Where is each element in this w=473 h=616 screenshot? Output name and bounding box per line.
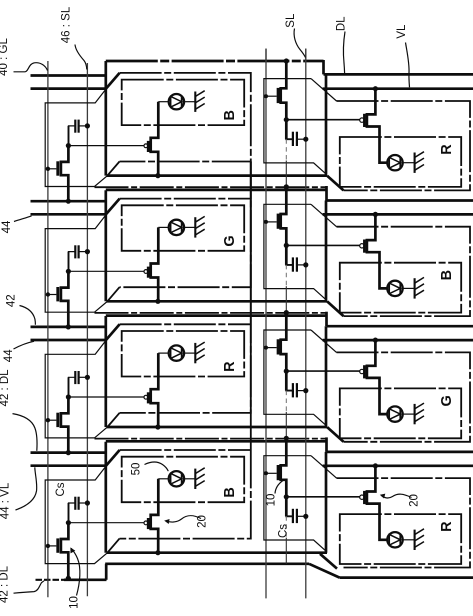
drive transistor 20 right cell 1	[367, 89, 387, 163]
organic EL element right cell 1	[387, 155, 402, 170]
select TFT gate bar left cell 4	[56, 538, 59, 552]
leader 44 second	[14, 341, 35, 349]
leader SL top	[294, 29, 305, 58]
inner box right cell 4	[340, 514, 461, 564]
outer box left cell 4	[120, 162, 251, 539]
drive TFT gate bar left cell 4	[147, 518, 150, 529]
svg-text:R: R	[439, 521, 455, 532]
drive transistor 20 left cell 2	[151, 227, 159, 301]
wire left cell 1 bottom boundary	[107, 174, 328, 177]
select transistor 10 right cell 2	[281, 187, 287, 265]
select TFT gate bar left cell 1	[56, 161, 59, 175]
wire outer box bottom-left diagonal left cell 3	[107, 413, 119, 427]
wire left cell 3 bottom boundary	[107, 426, 328, 429]
inner box left cell 1	[122, 80, 245, 126]
wire outline diagonal to outer box right cell 2	[311, 204, 337, 226]
svg-text:50: 50	[131, 463, 143, 476]
power line 44:VL left margin band 3	[31, 464, 107, 467]
svg-text:10: 10	[69, 596, 81, 609]
svg-text:B: B	[222, 110, 238, 120]
select transistor 10 right cell 4	[281, 438, 287, 516]
junction storage node dot left cell 1	[66, 143, 71, 148]
select TFT gate bar right cell 1	[277, 88, 280, 103]
junction drive drain on VL right cell 4	[373, 463, 378, 468]
wire left cell 2 bottom boundary	[107, 300, 328, 303]
wire select gate to GL left cell 3	[48, 419, 57, 421]
wire select gate to GL right cell 1	[266, 95, 277, 97]
wire bottom boundary diagonal to right outer box row 2	[327, 301, 344, 316]
leader 50	[145, 462, 169, 471]
wire DL band 3 jog down	[325, 437, 328, 452]
wire anode left cell 4	[158, 478, 169, 480]
organic EL element 50 left cell 4	[169, 471, 184, 486]
pixel outline right cell 4	[264, 456, 326, 551]
wire DL trunk continuation right cell 1	[285, 161, 287, 187]
scan line SL top stub right column	[305, 49, 307, 62]
chain boundary line between rows 2/3	[95, 312, 327, 314]
leader 42	[20, 306, 36, 325]
junction storage node dot right cell 3	[284, 369, 289, 374]
wire bottom boundary diagonal to right outer box row 1	[327, 176, 344, 191]
leader VL top	[406, 43, 410, 88]
junction DL trunk dot right cell 1	[284, 58, 289, 63]
power line 44:VL left margin row0	[31, 87, 107, 90]
capacitor Cs left cell 3 plates	[74, 371, 76, 384]
svg-text:R: R	[439, 144, 455, 155]
wire anode left cell 3	[158, 352, 169, 354]
wire cap right plate to SL left cell 4	[79, 502, 88, 504]
wire outer box bottom-left diagonal left cell 4	[107, 539, 119, 553]
ground symbol right cell 1	[414, 153, 416, 173]
gate line GL right column vertical	[265, 49, 267, 599]
leader 10 left	[71, 548, 80, 595]
pixel outline 10 left cell 3	[45, 340, 107, 438]
capacitor Cs left cell 2 plates	[74, 245, 76, 258]
junction gate-GL dot right cell 4	[264, 471, 268, 475]
junction storage node dot right cell 4	[284, 494, 289, 499]
svg-text:G: G	[222, 235, 238, 246]
wire cap left plate to node left cell 1	[69, 126, 76, 146]
power line 44:VL right margin row 2	[323, 213, 473, 216]
wire left cell 3 boundary vertical edge	[104, 316, 107, 427]
drive TFT gate circle left cell 2	[144, 270, 148, 274]
wire cathode left cell 4	[184, 478, 195, 480]
leader 44:VL	[16, 467, 37, 510]
wire cap right plate to SL right cell 3	[297, 390, 306, 392]
scan line 46:SL left column vertical	[86, 63, 88, 596]
data line 42:DL left margin row0	[31, 74, 107, 77]
organic EL element 50 left cell 2	[169, 220, 184, 235]
svg-text:40 : GL: 40 : GL	[0, 38, 10, 76]
junction DL trunk dot right cell 4	[284, 436, 289, 441]
junction drive drain on VL right cell 3	[373, 338, 378, 343]
wire gate feed right cell 3	[286, 370, 359, 372]
wire right cell 1 boundary vertical edge	[325, 74, 328, 174]
wire outer box bottom-left diagonal left cell 2	[107, 287, 119, 301]
wire data line DL bottom right margin	[340, 576, 473, 579]
drive TFT gate circle left cell 3	[144, 395, 148, 399]
outer box left cell 3	[120, 162, 251, 413]
wire gate feed left cell 2	[68, 270, 143, 272]
inner box left cell 4	[122, 457, 245, 503]
wire outline diagonal to outer box right cell 3	[311, 330, 337, 352]
organic EL element right cell 3	[387, 406, 402, 421]
junction cap-SL dot left cell 1	[85, 123, 90, 128]
svg-text:VL: VL	[396, 24, 408, 39]
power line VL diagonal into outer box row 2 left	[106, 199, 120, 215]
wire cathode left cell 1	[184, 101, 195, 103]
junction gate line dot left cell 4	[46, 544, 50, 548]
wire right cell 4 boundary vertical edge	[325, 452, 328, 553]
wire gate feed right cell 2	[286, 244, 359, 246]
drive transistor 20 right cell 3	[367, 340, 387, 414]
wire right cell 2 boundary vertical edge	[325, 201, 328, 301]
wire select gate to GL left cell 4	[48, 545, 57, 547]
wire cap right plate to SL right cell 1	[297, 138, 306, 140]
junction select source on DL left cell 3	[66, 450, 71, 455]
outer box right cell 3	[337, 352, 471, 441]
capacitor Cs right cell 1 plates	[292, 132, 294, 146]
junction drive source on bottom line left cell 4	[155, 550, 160, 555]
wire outline diagonal to outer box right cell 1	[311, 79, 337, 101]
junction DL trunk dot right cell 2	[284, 184, 289, 189]
ground symbol left cell 1	[194, 92, 196, 112]
drive TFT gate circle left cell 4	[144, 521, 148, 525]
svg-text:42: 42	[5, 294, 17, 307]
ground symbol right cell 4	[414, 530, 416, 550]
select transistor left cell 2	[61, 271, 69, 327]
leader 20 left	[167, 516, 202, 522]
wire cap right plate to SL left cell 2	[79, 251, 88, 253]
wire cathode right cell 2	[403, 287, 415, 289]
junction drive drain on VL right cell 1	[373, 86, 378, 91]
drive TFT gate circle right cell 4	[360, 495, 364, 499]
junction storage node dot left cell 3	[66, 394, 71, 399]
wire DL trunk dashed segment right cell 4	[285, 516, 287, 537]
arrow 20 left	[164, 519, 169, 524]
svg-text:B: B	[222, 487, 238, 497]
junction select source on DL left cell 4	[66, 576, 71, 581]
capacitor Cs right cell 2 plates	[292, 257, 294, 271]
pixel outline right cell 1	[264, 79, 326, 174]
svg-text:Cs: Cs	[278, 524, 290, 538]
ground symbol left cell 3	[194, 343, 196, 363]
drive transistor 20 right cell 4	[367, 466, 387, 540]
wire left cell 1 boundary vertical edge	[104, 61, 107, 176]
select transistor left cell 4	[61, 523, 69, 579]
wire right cell 3 boundary vertical edge	[325, 326, 328, 426]
junction gate line dot left cell 3	[46, 418, 50, 422]
wire gate feed left cell 4	[68, 522, 143, 524]
data line 42:DL left margin bottom	[36, 579, 67, 581]
select TFT gate bar right cell 2	[277, 214, 280, 229]
data line 42:DL left margin band 1	[31, 200, 107, 203]
gate line GL top stub right column	[265, 49, 267, 62]
power line VL diagonal into outer box row 3 left	[106, 324, 120, 340]
drive TFT gate bar right cell 4	[363, 491, 366, 504]
leader 42:DL bottom	[14, 581, 45, 593]
gate line 40:GL left column vertical	[47, 61, 49, 597]
junction cap-SL dot left cell 3	[85, 375, 90, 380]
organic EL element 50 left cell 3	[169, 345, 184, 360]
wire gate feed left cell 3	[68, 396, 143, 398]
wire data line DL row0 right margin	[324, 73, 473, 76]
power line 44:VL left margin band 2	[31, 339, 107, 342]
capacitor Cs left cell 4 plates	[74, 497, 76, 510]
junction cap-SL dot right cell 1	[303, 137, 308, 142]
wire cap right plate to SL right cell 2	[297, 264, 306, 266]
wire data line DL right margin band 1	[327, 199, 473, 202]
select TFT gate bar right cell 4	[277, 465, 280, 480]
wire gate feed left cell 1	[68, 145, 143, 147]
outer box right cell 1	[337, 101, 471, 190]
wire outer box bottom-left diagonal left cell 1	[107, 162, 119, 176]
junction cap-SL dot right cell 3	[303, 388, 308, 393]
svg-text:Cs: Cs	[55, 482, 67, 496]
wire select gate to GL right cell 2	[266, 221, 277, 223]
pixel outline 10 left cell 2	[45, 215, 107, 313]
wire anode left cell 2	[158, 226, 169, 228]
wire DL trunk dashed segment right cell 3	[285, 391, 287, 412]
wire select gate to GL right cell 3	[266, 347, 277, 349]
arrow 20 right	[380, 494, 386, 499]
pixel outline right cell 3	[264, 330, 326, 425]
wire DL trunk continuation right cell 4	[285, 538, 287, 564]
ground symbol right cell 3	[414, 404, 416, 424]
power line 44:VL right margin row 1	[323, 87, 473, 90]
junction cap-SL dot left cell 4	[85, 500, 90, 505]
junction storage node dot left cell 4	[66, 520, 71, 525]
inner box right cell 2	[340, 263, 461, 313]
wire cap right plate to SL left cell 3	[79, 376, 88, 378]
leader DL top	[343, 32, 345, 74]
wire cap left plate right cell 2	[286, 245, 293, 265]
pixel outline 10 left cell 4	[45, 466, 107, 564]
drive TFT gate bar left cell 1	[147, 141, 150, 152]
inner box left cell 3	[122, 331, 245, 377]
svg-text:44 : VL: 44 : VL	[0, 482, 12, 519]
leader 40:GL	[14, 63, 48, 72]
svg-text:DL: DL	[336, 16, 348, 31]
wire DL trunk dashed segment right cell 1	[285, 139, 287, 160]
wire cap left plate right cell 3	[286, 371, 293, 391]
select TFT gate bar left cell 3	[56, 413, 59, 427]
junction DL trunk dot right cell 3	[284, 310, 289, 315]
wire data line DL right margin band 2	[327, 325, 473, 328]
junction drive source on bottom line left cell 1	[155, 173, 160, 178]
svg-text:SL: SL	[285, 13, 297, 28]
outer box right cell 2	[337, 227, 471, 316]
select transistor 10 right cell 3	[281, 312, 287, 390]
svg-text:46 : SL: 46 : SL	[61, 6, 73, 43]
scan line SL right column vertical	[305, 49, 307, 599]
select transistor left cell 3	[61, 397, 69, 453]
junction gate line dot left cell 1	[46, 167, 50, 171]
outer box right cell 4	[337, 478, 471, 567]
wire left cell 4 bottom boundary	[107, 551, 328, 554]
wire DL bottom jog up	[105, 564, 108, 580]
drive TFT gate circle right cell 2	[360, 244, 364, 248]
capacitor Cs right cell 4 plates	[292, 509, 294, 523]
outer box left cell 1	[120, 73, 251, 162]
drive TFT gate bar right cell 1	[363, 114, 366, 127]
junction select source on DL left cell 1	[66, 199, 71, 204]
wire select gate to GL left cell 2	[48, 294, 57, 296]
svg-text:42 : DL: 42 : DL	[0, 565, 11, 603]
junction drive source on bottom line left cell 3	[155, 424, 160, 429]
wire data line DL mid run band 2	[106, 314, 327, 317]
outer box left cell 2	[120, 162, 251, 288]
wire cap left plate right cell 1	[286, 120, 293, 140]
power line 44:VL right margin row 4	[323, 464, 473, 467]
data line 42:DL left margin band 2	[31, 326, 107, 329]
leader 10 right	[275, 480, 283, 493]
wire bottom boundary diagonal to right outer box row 3	[327, 427, 344, 442]
select transistor 10 right cell 1	[281, 61, 287, 139]
leader 46:SL	[75, 45, 87, 70]
wire cap left plate to node left cell 3	[69, 377, 76, 397]
capacitor Cs left cell 1 plates	[74, 120, 76, 133]
inner box right cell 3	[340, 388, 461, 438]
wire data line DL right margin band 3	[327, 451, 473, 454]
wire select gate to GL left cell 1	[48, 168, 57, 170]
junction cap-SL dot right cell 2	[303, 262, 308, 267]
wire outline diagonal to outer box right cell 4	[311, 456, 337, 478]
drive TFT gate circle left cell 1	[144, 144, 148, 148]
wire DL band 1 jog down	[325, 186, 328, 201]
svg-text:R: R	[222, 361, 238, 372]
wire DL bottom diagonal	[309, 564, 340, 578]
drive transistor 20 right cell 2	[367, 214, 387, 288]
svg-text:44: 44	[3, 349, 15, 362]
wire cap left plate to node left cell 2	[69, 252, 76, 272]
power line VL diagonal into outer box row 4 left	[106, 450, 120, 466]
pixel outline 10 left cell 1	[45, 89, 107, 187]
svg-text:10: 10	[266, 494, 278, 507]
power line VL diagonal into outer box row 1 left	[106, 73, 120, 89]
wire left cell 2 boundary vertical edge	[104, 190, 107, 301]
junction cap-SL dot right cell 4	[303, 514, 308, 519]
junction cap-SL dot left cell 2	[85, 249, 90, 254]
drive TFT gate circle right cell 3	[360, 369, 364, 373]
select TFT gate bar left cell 2	[56, 287, 59, 301]
inner box left cell 2	[122, 205, 245, 251]
wire cathode right cell 3	[403, 413, 415, 415]
junction storage node dot right cell 1	[284, 117, 289, 122]
chain boundary line between rows 3/4	[95, 438, 327, 440]
drive transistor 20 left cell 4	[151, 479, 159, 553]
chain boundary line between rows 1/2	[95, 186, 327, 188]
leader 44 first	[14, 216, 32, 222]
organic EL element right cell 2	[387, 281, 402, 296]
wire cathode left cell 3	[184, 352, 195, 354]
wire cathode right cell 4	[403, 539, 415, 541]
drive transistor 20 left cell 3	[151, 353, 159, 427]
wire DL row0 jog down at right	[322, 60, 325, 74]
wire gate feed right cell 4	[286, 496, 359, 498]
wire gate feed right cell 1	[286, 119, 359, 121]
svg-text:44: 44	[1, 220, 13, 233]
wire cap right plate to SL right cell 4	[297, 515, 306, 517]
wire left cell 4 boundary vertical edge	[104, 442, 107, 553]
wire DL band 2 jog down	[325, 312, 328, 327]
wire DL trunk continuation right cell 3	[285, 412, 287, 438]
drive TFT gate circle right cell 1	[360, 118, 364, 122]
wire DL trunk dashed segment right cell 2	[285, 265, 287, 286]
wire anode left cell 1	[158, 101, 169, 103]
junction drive source on bottom line left cell 2	[155, 299, 160, 304]
ground symbol left cell 4	[194, 469, 196, 489]
capacitor Cs right cell 3 plates	[292, 383, 294, 397]
drive transistor 20 left cell 1	[151, 102, 159, 176]
ground symbol left cell 2	[194, 217, 196, 237]
select transistor left cell 1	[61, 146, 69, 202]
drive TFT gate bar right cell 2	[363, 240, 366, 253]
drive TFT gate bar right cell 3	[363, 365, 366, 378]
wire cathode right cell 1	[403, 162, 415, 164]
data line 42:DL left margin band 3	[31, 451, 107, 454]
power line 44:VL left margin band 1	[31, 213, 107, 216]
junction storage node dot left cell 2	[66, 269, 71, 274]
junction gate-GL dot right cell 3	[264, 346, 268, 350]
junction gate line dot left cell 2	[46, 292, 50, 296]
drive TFT gate bar left cell 2	[147, 267, 150, 278]
organic EL element 50 left cell 1	[169, 94, 184, 109]
organic EL element right cell 4	[387, 532, 402, 547]
wire data line DL mid run band 3	[106, 440, 327, 443]
drive TFT gate bar left cell 3	[147, 392, 150, 403]
svg-text:B: B	[439, 270, 455, 280]
power line 44:VL right margin row 3	[323, 339, 473, 342]
junction gate-GL dot right cell 2	[264, 220, 268, 224]
leader 20 right	[381, 494, 411, 498]
ground symbol right cell 2	[414, 278, 416, 298]
arrow 10 left	[70, 547, 75, 553]
wire cathode left cell 2	[184, 226, 195, 228]
leader 42:DL first	[13, 414, 38, 451]
select TFT gate bar right cell 3	[277, 339, 280, 354]
wire cap right plate to SL left cell 1	[79, 125, 88, 127]
svg-text:20: 20	[409, 494, 421, 507]
junction drive drain on VL right cell 2	[373, 212, 378, 217]
wire top data line DL row0 horizontal run	[106, 60, 324, 63]
pixel outline right cell 2	[264, 204, 326, 299]
wire cap left plate to node left cell 4	[69, 503, 76, 523]
junction gate-GL dot right cell 1	[264, 94, 268, 98]
junction select source on DL left cell 2	[66, 324, 71, 329]
wire bottom boundary diagonal to right outer box row 4	[320, 554, 337, 569]
inner box right cell 1	[340, 137, 461, 187]
junction storage node dot right cell 2	[284, 243, 289, 248]
wire cap left plate right cell 4	[286, 497, 293, 517]
svg-text:G: G	[439, 395, 455, 406]
svg-text:42 : DL: 42 : DL	[0, 369, 11, 407]
wire DL trunk continuation right cell 2	[285, 286, 287, 312]
wire data line DL mid run band 1	[106, 189, 327, 192]
wire select gate to GL right cell 4	[266, 472, 277, 474]
wire data line DL bottom mid run	[105, 562, 309, 565]
